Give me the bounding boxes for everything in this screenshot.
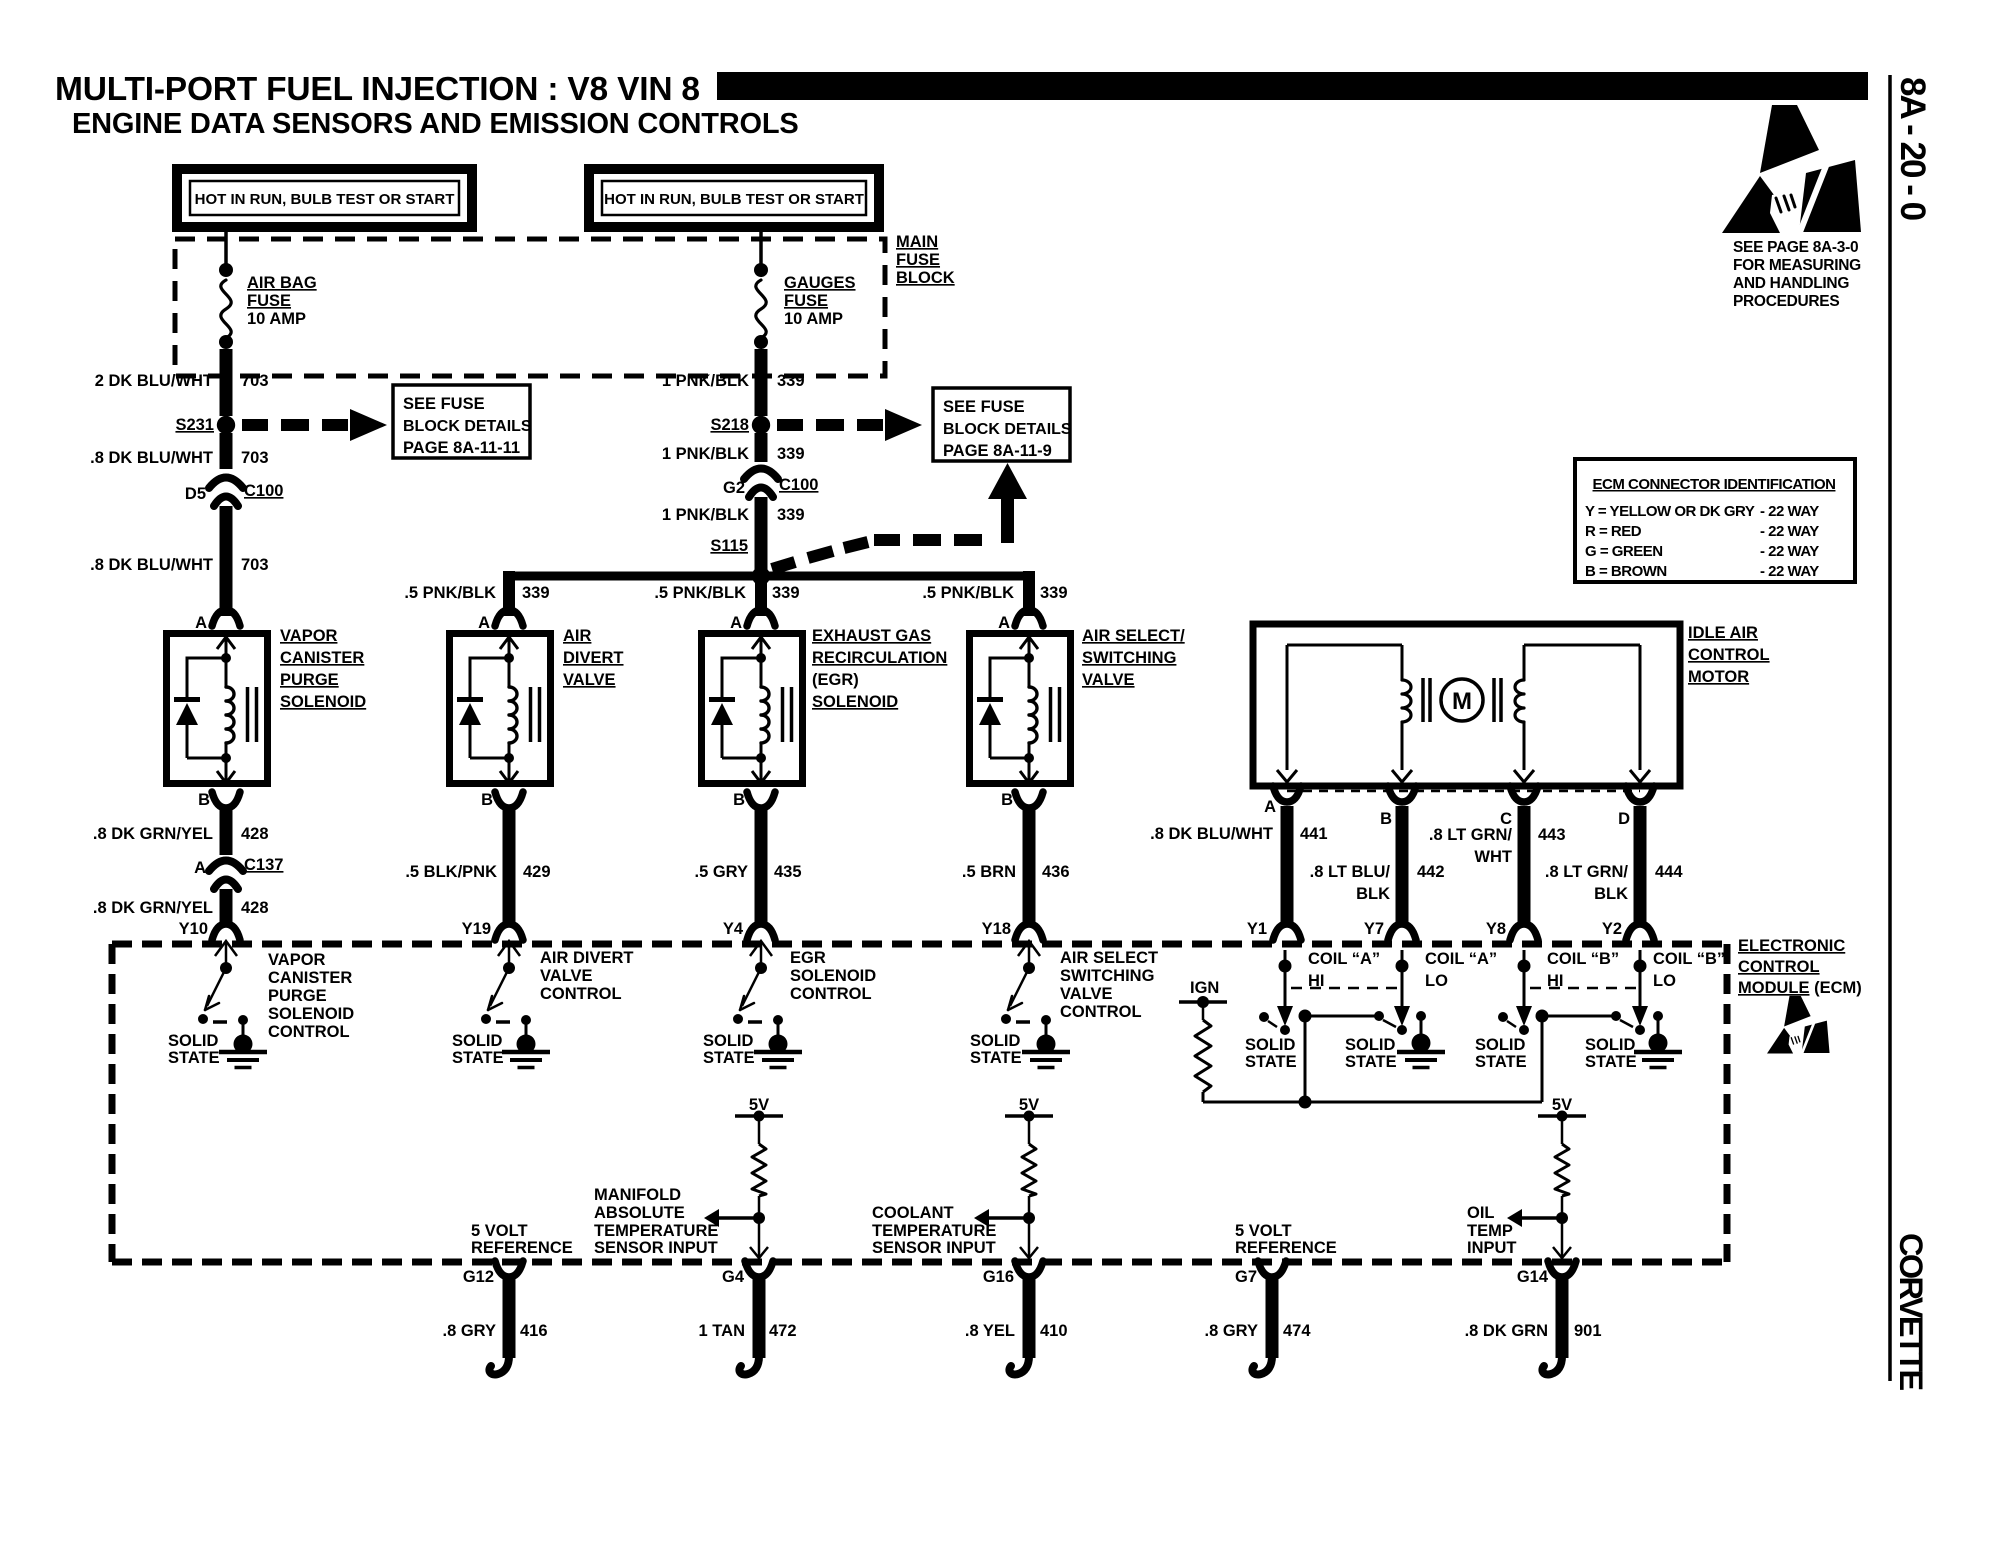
svg-text:436: 436 bbox=[1042, 863, 1070, 881]
svg-text:SOLID: SOLID bbox=[1585, 1036, 1636, 1054]
svg-text:.5 PNK/BLK: .5 PNK/BLK bbox=[404, 584, 496, 602]
svg-text:.8 LT GRN/: .8 LT GRN/ bbox=[1545, 863, 1629, 881]
svg-text:339: 339 bbox=[777, 372, 805, 390]
svg-text:CONTROL: CONTROL bbox=[1688, 646, 1770, 664]
svg-text:G7: G7 bbox=[1235, 1268, 1257, 1286]
svg-text:Y4: Y4 bbox=[723, 920, 744, 938]
svg-text:COIL “A”: COIL “A” bbox=[1308, 950, 1380, 968]
svg-text:TEMPERATURE: TEMPERATURE bbox=[872, 1222, 996, 1240]
svg-text:G14: G14 bbox=[1517, 1268, 1549, 1286]
svg-text:442: 442 bbox=[1417, 863, 1445, 881]
svg-text:.5 BRN: .5 BRN bbox=[962, 863, 1016, 881]
svg-text:PURGE: PURGE bbox=[268, 987, 327, 1005]
svg-text:HOT IN RUN, BULB TEST OR START: HOT IN RUN, BULB TEST OR START bbox=[195, 191, 455, 208]
svg-text:Y2: Y2 bbox=[1602, 920, 1622, 938]
svg-text:D: D bbox=[1618, 810, 1630, 828]
svg-text:.8 YEL: .8 YEL bbox=[965, 1322, 1015, 1340]
svg-text:474: 474 bbox=[1283, 1322, 1311, 1340]
svg-text:VAPOR: VAPOR bbox=[268, 951, 326, 969]
svg-text:STATE: STATE bbox=[703, 1049, 755, 1067]
svg-text:SENSOR INPUT: SENSOR INPUT bbox=[594, 1239, 718, 1257]
svg-text:STATE: STATE bbox=[452, 1049, 504, 1067]
svg-text:ECM CONNECTOR IDENTIFICATION: ECM CONNECTOR IDENTIFICATION bbox=[1593, 476, 1836, 493]
svg-text:TEMPERATURE: TEMPERATURE bbox=[594, 1222, 718, 1240]
svg-text:MOTOR: MOTOR bbox=[1688, 668, 1749, 686]
svg-text:SOLID: SOLID bbox=[1245, 1036, 1296, 1054]
svg-text:703: 703 bbox=[241, 372, 269, 390]
svg-text:INPUT: INPUT bbox=[1467, 1239, 1517, 1257]
svg-text:410: 410 bbox=[1040, 1322, 1068, 1340]
svg-text:STATE: STATE bbox=[1245, 1053, 1297, 1071]
svg-text:PAGE 8A-11-11: PAGE 8A-11-11 bbox=[403, 439, 520, 457]
svg-text:A: A bbox=[1264, 798, 1276, 816]
svg-text:MANIFOLD: MANIFOLD bbox=[594, 1186, 681, 1204]
svg-text:SWITCHING: SWITCHING bbox=[1082, 649, 1176, 667]
svg-text:SOLENOID: SOLENOID bbox=[280, 693, 366, 711]
svg-text:Y = YELLOW OR DK GRY: Y = YELLOW OR DK GRY bbox=[1585, 503, 1755, 520]
svg-text:WHT: WHT bbox=[1474, 848, 1512, 866]
svg-text:CONTROL: CONTROL bbox=[790, 985, 872, 1003]
svg-text:EXHAUST GAS: EXHAUST GAS bbox=[812, 627, 931, 645]
svg-text:COIL “A”: COIL “A” bbox=[1425, 950, 1497, 968]
svg-text:Y10: Y10 bbox=[179, 920, 208, 938]
svg-text:B = BROWN: B = BROWN bbox=[1585, 563, 1667, 580]
svg-text:MODULE (ECM): MODULE (ECM) bbox=[1738, 979, 1862, 997]
svg-text:S231: S231 bbox=[175, 416, 214, 434]
svg-text:SOLID: SOLID bbox=[703, 1032, 754, 1050]
svg-text:.8 DK GRN/YEL: .8 DK GRN/YEL bbox=[93, 825, 213, 843]
svg-text:.5 GRY: .5 GRY bbox=[695, 863, 749, 881]
svg-text:STATE: STATE bbox=[1475, 1053, 1527, 1071]
svg-text:SEE FUSE: SEE FUSE bbox=[403, 395, 485, 413]
svg-text:STATE: STATE bbox=[1585, 1053, 1637, 1071]
svg-text:LO: LO bbox=[1653, 972, 1676, 990]
svg-text:CONTROL: CONTROL bbox=[268, 1023, 350, 1041]
svg-text:SOLID: SOLID bbox=[1345, 1036, 1396, 1054]
svg-text:LO: LO bbox=[1425, 972, 1448, 990]
svg-text:SEE PAGE 8A-3-0: SEE PAGE 8A-3-0 bbox=[1733, 239, 1858, 256]
svg-text:FOR MEASURING: FOR MEASURING bbox=[1733, 257, 1861, 274]
svg-text:PROCEDURES: PROCEDURES bbox=[1733, 293, 1839, 310]
svg-text:10 AMP: 10 AMP bbox=[784, 310, 843, 328]
svg-text:SOLID: SOLID bbox=[452, 1032, 503, 1050]
svg-text:B: B bbox=[481, 791, 493, 809]
svg-text:Y8: Y8 bbox=[1486, 920, 1506, 938]
svg-text:416: 416 bbox=[520, 1322, 548, 1340]
svg-text:.5 PNK/BLK: .5 PNK/BLK bbox=[922, 584, 1014, 602]
svg-text:1 PNK/BLK: 1 PNK/BLK bbox=[662, 372, 749, 390]
svg-text:339: 339 bbox=[777, 445, 805, 463]
svg-text:.5 BLK/PNK: .5 BLK/PNK bbox=[405, 863, 497, 881]
svg-text:CORVETTE: CORVETTE bbox=[1893, 1233, 1929, 1390]
svg-text:REFERENCE: REFERENCE bbox=[1235, 1239, 1337, 1257]
svg-text:BLOCK DETAILS: BLOCK DETAILS bbox=[403, 418, 532, 435]
svg-text:428: 428 bbox=[241, 899, 269, 917]
svg-text:B: B bbox=[733, 791, 745, 809]
svg-text:COOLANT: COOLANT bbox=[872, 1204, 954, 1222]
svg-text:5 VOLT: 5 VOLT bbox=[471, 1222, 528, 1240]
svg-text:GAUGES: GAUGES bbox=[784, 274, 856, 292]
svg-text:RECIRCULATION: RECIRCULATION bbox=[812, 649, 947, 667]
svg-text:PURGE: PURGE bbox=[280, 671, 339, 689]
svg-text:MAIN: MAIN bbox=[896, 233, 938, 251]
svg-text:Y1: Y1 bbox=[1247, 920, 1267, 938]
svg-text:G16: G16 bbox=[983, 1268, 1014, 1286]
svg-text:FUSE: FUSE bbox=[784, 292, 828, 310]
svg-text:339: 339 bbox=[777, 506, 805, 524]
svg-text:8A - 20 - 0: 8A - 20 - 0 bbox=[1893, 77, 1932, 221]
svg-text:D5: D5 bbox=[185, 485, 206, 503]
svg-text:441: 441 bbox=[1300, 825, 1328, 843]
svg-text:ELECTRONIC: ELECTRONIC bbox=[1738, 937, 1845, 955]
svg-text:DIVERT: DIVERT bbox=[563, 649, 624, 667]
svg-text:VALVE: VALVE bbox=[1060, 985, 1113, 1003]
svg-text:PAGE 8A-11-9: PAGE 8A-11-9 bbox=[943, 442, 1052, 460]
svg-text:AIR DIVERT: AIR DIVERT bbox=[540, 949, 634, 967]
svg-text:A: A bbox=[195, 614, 207, 632]
svg-text:SOLENOID: SOLENOID bbox=[268, 1005, 354, 1023]
svg-text:A: A bbox=[478, 614, 490, 632]
svg-text:VALVE: VALVE bbox=[1082, 671, 1135, 689]
svg-text:IGN: IGN bbox=[1190, 979, 1219, 997]
svg-text:435: 435 bbox=[774, 863, 802, 881]
svg-text:Y18: Y18 bbox=[982, 920, 1011, 938]
svg-text:C100: C100 bbox=[244, 482, 283, 500]
svg-text:STATE: STATE bbox=[970, 1049, 1022, 1067]
svg-text:VALVE: VALVE bbox=[563, 671, 616, 689]
svg-text:COIL “B”: COIL “B” bbox=[1653, 950, 1725, 968]
svg-text:CANISTER: CANISTER bbox=[280, 649, 364, 667]
svg-text:SOLENOID: SOLENOID bbox=[790, 967, 876, 985]
svg-text:SOLID: SOLID bbox=[168, 1032, 219, 1050]
svg-text:443: 443 bbox=[1538, 826, 1566, 844]
svg-text:S115: S115 bbox=[710, 537, 748, 555]
svg-text:339: 339 bbox=[1040, 584, 1068, 602]
svg-text:SOLENOID: SOLENOID bbox=[812, 693, 898, 711]
svg-text:472: 472 bbox=[769, 1322, 797, 1340]
svg-text:AIR SELECT: AIR SELECT bbox=[1060, 949, 1158, 967]
svg-text:1 PNK/BLK: 1 PNK/BLK bbox=[662, 445, 749, 463]
svg-text:FUSE: FUSE bbox=[247, 292, 291, 310]
svg-text:339: 339 bbox=[522, 584, 550, 602]
svg-text:428: 428 bbox=[241, 825, 269, 843]
svg-text:901: 901 bbox=[1574, 1322, 1602, 1340]
svg-text:- 22 WAY: - 22 WAY bbox=[1760, 543, 1819, 560]
svg-text:TEMP: TEMP bbox=[1467, 1222, 1513, 1240]
svg-text:2 DK BLU/WHT: 2 DK BLU/WHT bbox=[95, 372, 213, 390]
svg-text:G4: G4 bbox=[722, 1268, 745, 1286]
svg-text:SEE FUSE: SEE FUSE bbox=[943, 398, 1025, 416]
svg-text:.8 LT BLU/: .8 LT BLU/ bbox=[1310, 863, 1391, 881]
svg-text:AIR SELECT/: AIR SELECT/ bbox=[1082, 627, 1185, 645]
svg-text:VALVE: VALVE bbox=[540, 967, 593, 985]
svg-text:HI: HI bbox=[1547, 972, 1564, 990]
svg-text:BLK: BLK bbox=[1594, 885, 1628, 903]
svg-text:1 TAN: 1 TAN bbox=[699, 1322, 745, 1340]
svg-text:B: B bbox=[1001, 791, 1013, 809]
svg-text:G2: G2 bbox=[723, 479, 745, 497]
svg-text:HOT IN RUN, BULB TEST OR START: HOT IN RUN, BULB TEST OR START bbox=[604, 191, 864, 208]
svg-text:.8 GRY: .8 GRY bbox=[443, 1322, 497, 1340]
svg-text:EGR: EGR bbox=[790, 949, 826, 967]
svg-text:IDLE AIR: IDLE AIR bbox=[1688, 624, 1758, 642]
svg-text:.5 PNK/BLK: .5 PNK/BLK bbox=[654, 584, 746, 602]
svg-text:G12: G12 bbox=[463, 1268, 494, 1286]
svg-text:A: A bbox=[194, 859, 206, 877]
svg-text:ABSOLUTE: ABSOLUTE bbox=[594, 1204, 685, 1222]
svg-text:AIR: AIR bbox=[563, 627, 592, 645]
svg-text:429: 429 bbox=[523, 863, 551, 881]
svg-text:.8 LT GRN/: .8 LT GRN/ bbox=[1429, 826, 1513, 844]
svg-text:C100: C100 bbox=[779, 476, 818, 494]
svg-text:CONTROL: CONTROL bbox=[540, 985, 622, 1003]
svg-text:5 VOLT: 5 VOLT bbox=[1235, 1222, 1292, 1240]
svg-text:M: M bbox=[1452, 688, 1472, 715]
svg-text:AIR BAG: AIR BAG bbox=[247, 274, 317, 292]
svg-text:- 22 WAY: - 22 WAY bbox=[1760, 503, 1819, 520]
svg-text:A: A bbox=[730, 614, 742, 632]
svg-text:Y19: Y19 bbox=[462, 920, 491, 938]
svg-text:BLOCK DETAILS: BLOCK DETAILS bbox=[943, 421, 1072, 438]
svg-text:S218: S218 bbox=[710, 416, 749, 434]
svg-text:Y7: Y7 bbox=[1364, 920, 1384, 938]
svg-text:REFERENCE: REFERENCE bbox=[471, 1239, 573, 1257]
svg-text:CONTROL: CONTROL bbox=[1738, 958, 1820, 976]
svg-text:ENGINE DATA SENSORS AND EMISSI: ENGINE DATA SENSORS AND EMISSION CONTROL… bbox=[72, 108, 799, 140]
svg-text:STATE: STATE bbox=[168, 1049, 220, 1067]
svg-text:COIL “B”: COIL “B” bbox=[1547, 950, 1619, 968]
svg-text:STATE: STATE bbox=[1345, 1053, 1397, 1071]
svg-text:C137: C137 bbox=[244, 856, 283, 874]
svg-text:339: 339 bbox=[772, 584, 800, 602]
svg-text:.8 DK BLU/WHT: .8 DK BLU/WHT bbox=[1150, 825, 1273, 843]
svg-text:703: 703 bbox=[241, 449, 269, 467]
svg-text:HI: HI bbox=[1308, 972, 1325, 990]
svg-text:BLOCK: BLOCK bbox=[896, 269, 955, 287]
svg-text:VAPOR: VAPOR bbox=[280, 627, 338, 645]
svg-text:.8 DK BLU/WHT: .8 DK BLU/WHT bbox=[90, 449, 213, 467]
svg-text:CANISTER: CANISTER bbox=[268, 969, 352, 987]
svg-text:SOLID: SOLID bbox=[970, 1032, 1021, 1050]
svg-text:.8 DK GRN: .8 DK GRN bbox=[1465, 1322, 1548, 1340]
svg-text:B: B bbox=[1380, 810, 1392, 828]
svg-text:AND HANDLING: AND HANDLING bbox=[1733, 275, 1849, 292]
svg-text:(EGR): (EGR) bbox=[812, 671, 859, 689]
svg-text:BLK: BLK bbox=[1356, 885, 1390, 903]
svg-text:MULTI-PORT FUEL INJECTION : V: MULTI-PORT FUEL INJECTION : V8 VIN 8 bbox=[55, 71, 700, 108]
svg-text:SOLID: SOLID bbox=[1475, 1036, 1526, 1054]
svg-text:.8 DK GRN/YEL: .8 DK GRN/YEL bbox=[93, 899, 213, 917]
svg-text:OIL: OIL bbox=[1467, 1204, 1495, 1222]
svg-text:SENSOR INPUT: SENSOR INPUT bbox=[872, 1239, 996, 1257]
svg-text:CONTROL: CONTROL bbox=[1060, 1003, 1142, 1021]
svg-text:703: 703 bbox=[241, 556, 269, 574]
svg-text:.8 GRY: .8 GRY bbox=[1205, 1322, 1259, 1340]
svg-text:A: A bbox=[998, 614, 1010, 632]
svg-text:.8 DK BLU/WHT: .8 DK BLU/WHT bbox=[90, 556, 213, 574]
svg-text:444: 444 bbox=[1655, 863, 1683, 881]
svg-text:10 AMP: 10 AMP bbox=[247, 310, 306, 328]
svg-text:- 22 WAY: - 22 WAY bbox=[1760, 523, 1819, 540]
svg-text:1 PNK/BLK: 1 PNK/BLK bbox=[662, 506, 749, 524]
svg-text:FUSE: FUSE bbox=[896, 251, 940, 269]
svg-text:- 22 WAY: - 22 WAY bbox=[1760, 563, 1819, 580]
svg-text:R = RED: R = RED bbox=[1585, 523, 1642, 540]
svg-text:G = GREEN: G = GREEN bbox=[1585, 543, 1663, 560]
svg-text:SWITCHING: SWITCHING bbox=[1060, 967, 1154, 985]
svg-text:B: B bbox=[198, 791, 210, 809]
